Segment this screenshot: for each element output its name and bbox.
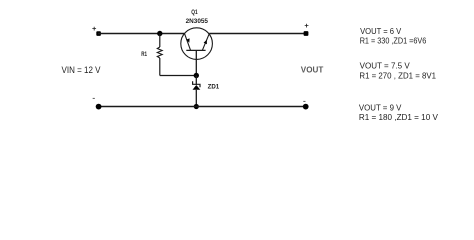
svg-text:+: + — [304, 21, 309, 30]
svg-text:VOUT: VOUT — [301, 66, 324, 75]
wire top-right rail — [209, 33, 306, 35]
svg-text:R1: R1 — [141, 52, 147, 58]
wire base node to ZD1 — [195, 76, 197, 86]
node R1 top junction — [157, 31, 162, 36]
wire bottom rail — [98, 106, 306, 108]
wire top-left rail — [98, 33, 184, 35]
svg-text:R1 = 270 , ZD1 = 8V1: R1 = 270 , ZD1 = 8V1 — [359, 71, 436, 80]
node base junction — [194, 73, 199, 78]
svg-text:R1 = 180 ,ZD1 = 10 V: R1 = 180 ,ZD1 = 10 V — [359, 113, 439, 122]
wire R1 bottom to base node — [160, 75, 197, 77]
wire R1 top lead — [159, 34, 161, 48]
transistor Q1 — [181, 28, 213, 76]
terminal - output bottom-right — [303, 96, 309, 110]
zener diode ZD1 — [193, 81, 201, 90]
svg-text:VOUT = 7.5 V: VOUT = 7.5 V — [360, 61, 411, 70]
resistor R1 — [157, 47, 162, 58]
svg-text:VOUT = 6 V: VOUT = 6 V — [360, 27, 402, 36]
svg-text:+: + — [92, 24, 97, 33]
svg-text:VOUT = 9 V: VOUT = 9 V — [359, 103, 402, 112]
svg-text:-: - — [92, 93, 95, 103]
terminal + output top-right — [304, 21, 310, 36]
svg-text:ZD1: ZD1 — [208, 84, 220, 91]
svg-text:R1 = 330 ,ZD1 =6V6: R1 = 330 ,ZD1 =6V6 — [360, 37, 427, 46]
svg-text:2N3055: 2N3055 — [186, 18, 209, 25]
terminal + input top-left — [92, 24, 101, 36]
node bottom junction — [194, 104, 199, 109]
wire R1 bottom lead — [159, 58, 161, 76]
wire ZD1 to bottom rail — [195, 90, 197, 107]
terminal - input bottom-left — [92, 93, 101, 110]
svg-text:Q1: Q1 — [191, 9, 198, 16]
svg-text:VIN = 12 V: VIN = 12 V — [62, 65, 101, 75]
